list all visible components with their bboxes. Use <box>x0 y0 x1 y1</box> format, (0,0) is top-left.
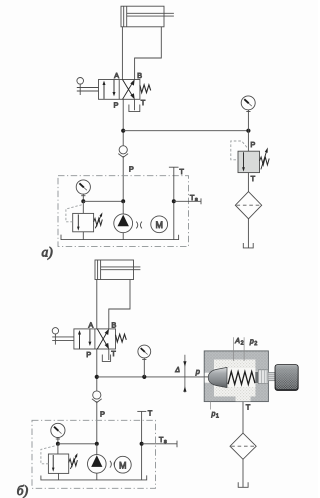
wire T line b <box>141 411 143 480</box>
relief valve KP1 spring <box>260 157 270 165</box>
delta-p dimension line <box>183 355 186 393</box>
spring (valve block) <box>228 372 255 385</box>
label p2 <box>249 338 257 347</box>
return spring (valve b) <box>116 334 127 342</box>
poppet (valve block) <box>208 367 227 387</box>
cylinder CYL-a piston <box>124 6 127 27</box>
T port tick a <box>169 166 179 168</box>
svg-text:T: T <box>148 409 153 418</box>
wire cylinder-b cap to valve port A <box>96 280 98 329</box>
tank symbol (valve b) <box>102 355 110 362</box>
wire gauge MN2 stub <box>82 194 84 201</box>
lever actuator (valve a) <box>77 78 99 96</box>
pressure gauge MN4 (pump unit b) <box>51 423 65 437</box>
tank symbol (circuit b right) <box>238 482 248 487</box>
svg-text:M: M <box>119 460 127 470</box>
wire pump P stub b <box>96 444 98 455</box>
relief valve KP3 adjust arrow <box>70 453 77 469</box>
wire gauge branch horizontal a <box>83 200 123 202</box>
shaft coupling a <box>136 222 142 229</box>
shaft coupling b <box>110 461 116 468</box>
check valve KO2 (circuit b) <box>92 391 102 403</box>
wire P into block <box>204 376 212 378</box>
wire T line a <box>173 167 175 239</box>
cylinder CYL-a body <box>121 6 164 27</box>
junction gauge a <box>81 199 85 203</box>
svg-text:б): б) <box>17 483 29 498</box>
svg-text:P: P <box>86 350 91 359</box>
wire cylinder-a cap to valve port A <box>121 27 123 80</box>
cylinder CYL-b piston <box>98 260 101 280</box>
relief valve KP3 spring <box>69 459 78 466</box>
relief valve KP3 pilot line (dashed) <box>41 445 57 463</box>
wire pump b to manifold <box>96 473 98 480</box>
valve DV-b crossed arrow P to B <box>97 329 109 349</box>
svg-text:T: T <box>251 174 256 183</box>
wire check valve b to pump unit <box>96 401 98 444</box>
Ts end tick b <box>176 441 178 448</box>
relief valve KP1 pilot line (dashed) <box>231 141 247 160</box>
relief valve KP1 internal arrow <box>242 152 245 171</box>
tank symbol (valve a) <box>129 105 140 112</box>
label p1 <box>211 411 219 420</box>
wire junction to relief valve a <box>247 131 249 152</box>
pump unit enclosure a (dash-dot box) <box>58 176 189 247</box>
valve DV-b left position down arrow <box>88 329 91 346</box>
relief valve KP2 body (pump unit a) <box>73 213 94 231</box>
junction gauge-relief a <box>246 129 250 133</box>
filter F1 (circuit a) <box>235 192 261 219</box>
relief valve KP1 adjust arrow <box>261 147 268 169</box>
wire filter b to tank <box>242 459 244 487</box>
tank symbol (circuit a right) <box>243 243 253 248</box>
pressure gauge MN2 (pump unit a) <box>76 180 90 194</box>
svg-text:P: P <box>129 165 134 174</box>
svg-text:p: p <box>249 338 254 345</box>
wire block T to filter <box>242 402 244 434</box>
valve DV-b left position up arrow <box>78 330 81 349</box>
wire valve-a P down <box>122 99 124 145</box>
pressure gauge MN3 (circuit b) <box>138 345 151 358</box>
wire cylinder-a rod end to valve port B <box>135 27 162 80</box>
valve DV-a left position up arrow <box>103 81 106 99</box>
threaded stem (valve block) <box>268 372 275 380</box>
relief valve KP2 adjust arrow <box>95 212 102 228</box>
junction pump P a <box>121 199 125 203</box>
label Ts (circuit b) <box>159 435 167 445</box>
directional valve DV-a body <box>99 80 140 100</box>
junction P-branch a <box>121 129 125 133</box>
wire check valve to pump unit a <box>122 156 124 201</box>
wire gauge branch horizontal b <box>58 443 97 445</box>
pump unit enclosure b (dash-dot box) <box>32 420 156 488</box>
valve block body (sectional view) <box>204 351 268 402</box>
wire P branch horizontal a <box>123 130 248 132</box>
label Ts (circuit a) <box>190 193 198 203</box>
lever actuator (valve b) <box>52 328 74 345</box>
wire gauge MN4 stub <box>57 438 59 444</box>
svg-text:2: 2 <box>241 340 244 346</box>
svg-text:T: T <box>141 98 146 107</box>
wire pump P stub a <box>122 201 124 214</box>
label A2 <box>234 338 243 347</box>
leader line A2 <box>233 337 235 361</box>
valve block cavity <box>205 360 268 402</box>
wire Ts b <box>142 443 177 445</box>
junction gauge b <box>56 442 60 446</box>
wire valve-a T to tank <box>134 99 136 110</box>
wire cylinder-b rod end to valve port B <box>109 280 130 329</box>
relief valve KP3 internal arrow <box>52 455 55 472</box>
Ts end tick a <box>200 198 202 204</box>
wire gauge MN1 to junction <box>247 110 249 131</box>
wire relief KP2 to return manifold a <box>82 232 84 240</box>
svg-text:s: s <box>164 439 167 445</box>
check valve KO1 (circuit a) <box>118 146 128 158</box>
relief valve KP2 spring <box>94 218 103 225</box>
junction P-branch b <box>95 375 99 379</box>
svg-text:T: T <box>246 403 251 412</box>
svg-text:s: s <box>195 197 198 203</box>
pressure gauge MN1 (circuit a right) <box>241 96 255 110</box>
adjusting knob (valve block) <box>275 365 298 391</box>
return manifold wire a <box>61 235 179 240</box>
svg-text:Δ: Δ <box>174 367 180 374</box>
svg-text:B: B <box>111 321 116 330</box>
wire pump to manifold a <box>122 233 124 240</box>
wire junction to relief KP2 a <box>82 201 84 213</box>
svg-text:A: A <box>88 321 93 330</box>
wire filter a to tank <box>247 219 249 248</box>
T port tick b <box>137 410 146 412</box>
svg-text:P: P <box>100 409 105 418</box>
filter F2 (circuit b) <box>230 433 256 459</box>
svg-text:a): a) <box>42 244 54 259</box>
wire valve-b T to tank <box>108 349 110 360</box>
adjusting nut (valve block) <box>258 370 268 384</box>
svg-text:P: P <box>114 101 119 110</box>
relief valve KP2 internal arrow <box>77 214 80 230</box>
wire gauge MN3 stub <box>143 358 145 377</box>
leader line p2 <box>243 337 245 361</box>
cylinder CYL-a rod <box>127 13 174 16</box>
valve DV-a crossed arrow P to B <box>123 79 135 99</box>
leader line p1 <box>209 402 211 410</box>
directional valve DV-b body <box>74 329 116 349</box>
wire junction to relief KP3 b <box>57 444 59 454</box>
valve DV-a crossed arrow A to T <box>123 80 135 100</box>
svg-text:A: A <box>234 338 240 345</box>
junction pump P b <box>95 442 99 446</box>
pump N1 (circuit a) <box>114 214 133 233</box>
junction Ts b <box>140 442 144 446</box>
valve DV-a left position down arrow <box>113 80 116 97</box>
relief valve KP1 body (circuit a) <box>238 151 260 172</box>
wire relief valve a to filter <box>247 173 249 192</box>
svg-text:2: 2 <box>254 341 257 347</box>
junction Ts a <box>172 199 176 203</box>
pump N2 (circuit b) <box>88 455 107 474</box>
relief valve KP3 body (pump unit b) <box>48 454 68 473</box>
wire P branch horizontal b <box>97 376 213 378</box>
spring seat washer (valve block) <box>255 372 258 384</box>
svg-text:T: T <box>111 349 116 358</box>
svg-text:A: A <box>114 71 119 80</box>
wire valve-b P down <box>96 349 98 391</box>
electric motor M1 (circuit a) <box>151 216 168 233</box>
electric motor M2 (circuit b) <box>114 456 131 473</box>
cylinder CYL-b body <box>95 260 134 280</box>
relief valve KP2 pilot line (dashed) <box>66 205 82 222</box>
return spring (valve a) <box>140 85 151 93</box>
svg-text:T: T <box>179 167 184 176</box>
return manifold wire b <box>41 475 147 480</box>
svg-text:1: 1 <box>216 414 219 420</box>
junction gauge b <box>142 375 146 379</box>
svg-text:p: p <box>211 411 216 418</box>
wire relief KP3 to manifold b <box>58 473 60 480</box>
svg-text:p: p <box>195 367 200 376</box>
svg-text:M: M <box>155 220 163 230</box>
svg-text:B: B <box>137 71 142 80</box>
valve DV-b crossed arrow A to T <box>97 329 109 349</box>
cylinder CYL-b rod <box>101 267 141 270</box>
wire Ts a <box>174 200 201 202</box>
svg-text:P: P <box>250 140 255 149</box>
